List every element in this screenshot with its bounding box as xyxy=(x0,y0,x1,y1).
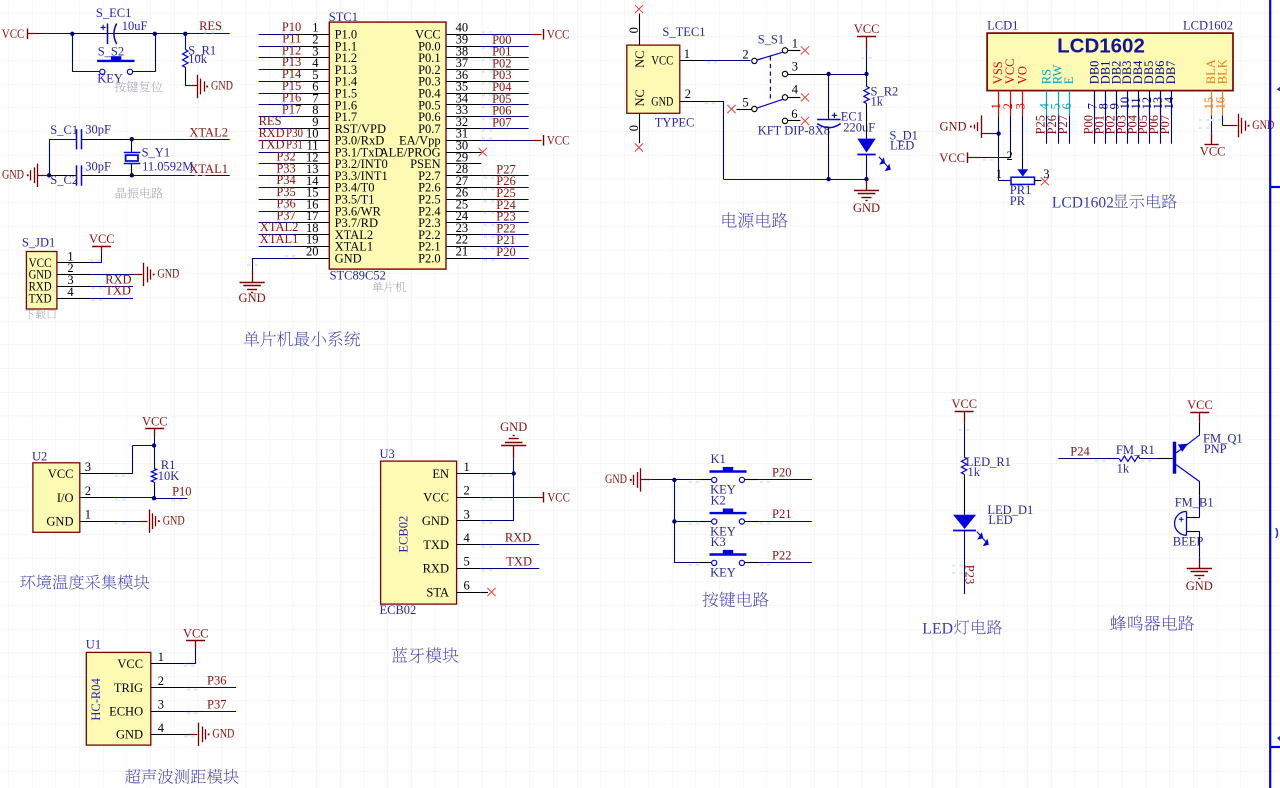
pin 29 (PSEN) xyxy=(410,150,481,171)
wire P32 xyxy=(259,163,294,165)
label STC1 designator xyxy=(329,10,358,24)
wire P01 xyxy=(481,57,528,59)
svg-text:P20: P20 xyxy=(772,466,791,480)
wire K3 to P22 xyxy=(745,563,812,567)
svg-text:RES: RES xyxy=(199,19,222,33)
label S_R1 designator xyxy=(188,44,216,58)
svg-text:S_C1: S_C1 xyxy=(50,123,78,137)
svg-text:6: 6 xyxy=(464,578,470,592)
label KEY (K2) xyxy=(710,524,736,538)
svg-text:HC-R04: HC-R04 xyxy=(89,677,103,720)
pin 34 (P0.5) xyxy=(418,91,481,112)
svg-text:BLK: BLK xyxy=(1215,59,1229,84)
label PR part xyxy=(1010,194,1026,208)
svg-text:RXD: RXD xyxy=(423,562,449,576)
pin 26 (P2.5) xyxy=(418,186,481,207)
no connect bottom (S_TEC1) xyxy=(635,113,643,151)
label download port title xyxy=(24,309,55,319)
pin 7 (DB0) LCD1602 xyxy=(1086,61,1102,116)
svg-text:0: 0 xyxy=(627,27,641,33)
pin 5 (RW) LCD1602 xyxy=(1049,65,1065,116)
svg-text:VCC: VCC xyxy=(423,491,449,505)
svg-text:LCD1602: LCD1602 xyxy=(1052,194,1114,211)
pin 1 (GND U2) xyxy=(46,508,114,529)
wire XTAL1 (pin19) xyxy=(259,246,294,248)
pin 8 (P1.7) xyxy=(294,103,357,124)
net label TXD xyxy=(105,284,131,298)
svg-text:P37: P37 xyxy=(207,697,226,711)
svg-text:GND: GND xyxy=(46,515,73,529)
label S_S2 designator xyxy=(98,44,124,58)
potentiometer PR1 xyxy=(1011,169,1035,184)
pin 10 (DB3) LCD1602 xyxy=(1118,61,1134,116)
net label P03 (LCD) xyxy=(1114,115,1128,134)
svg-text:GND: GND xyxy=(239,291,266,305)
svg-text:LED: LED xyxy=(988,513,1012,527)
node junction XTAL1 xyxy=(130,173,134,177)
pin VCC (S_TEC1) xyxy=(651,54,673,68)
net label P34 xyxy=(276,173,296,187)
pin 4 (GND U1) xyxy=(116,721,186,742)
svg-text:GND: GND xyxy=(212,727,234,741)
pin 13 (P3.3/INT1) xyxy=(294,162,388,183)
svg-text:ECHO: ECHO xyxy=(109,705,143,719)
net label TXD (U3) xyxy=(506,554,532,568)
svg-text:P27: P27 xyxy=(1056,115,1070,134)
wire P34 xyxy=(259,187,294,189)
svg-text:S_S1: S_S1 xyxy=(758,33,784,47)
net label RES xyxy=(199,19,222,33)
svg-text:1k: 1k xyxy=(1117,462,1130,476)
capacitor EC1 xyxy=(817,113,840,128)
connector S_TEC1 body xyxy=(627,45,680,113)
wire VO down to PR1 wiper xyxy=(1022,116,1024,170)
svg-text:DB7: DB7 xyxy=(1164,61,1178,85)
label LED (LED_D1) xyxy=(988,513,1012,527)
wire VCC to LED_R1 xyxy=(959,423,970,457)
wire corner to S_C1 xyxy=(49,139,76,141)
label KFT DIP-8X8 xyxy=(758,124,830,138)
svg-text:VO: VO xyxy=(1015,66,1029,84)
label PR1 designator xyxy=(1010,183,1032,197)
net label P27 xyxy=(484,162,516,178)
svg-text:VCC: VCC xyxy=(951,397,977,411)
wire P23 xyxy=(481,222,528,224)
wire P37 xyxy=(186,712,236,715)
pin 3 (VCC U2) xyxy=(48,460,114,481)
wire P25 xyxy=(481,199,528,201)
ic U3 ECB02 body xyxy=(381,461,457,604)
svg-text:2: 2 xyxy=(742,47,748,61)
svg-text:P07: P07 xyxy=(492,115,511,129)
wire pin4 to GND (U1) xyxy=(184,735,197,738)
net label P22 xyxy=(484,221,516,237)
label 30pF value (C1) xyxy=(85,122,111,136)
label buzzer circuit title xyxy=(1110,615,1194,631)
net label P00 xyxy=(482,33,512,49)
wire pin20 to GND xyxy=(247,255,295,282)
label NC (top pin) xyxy=(633,51,647,68)
svg-text:VCC: VCC xyxy=(547,134,570,148)
wire P16 xyxy=(259,104,294,106)
pin 18 (XTAL2) xyxy=(294,221,373,242)
switch S_S1 linkage xyxy=(769,56,771,101)
pin 4 (S_JD1) xyxy=(57,285,91,299)
svg-text:2: 2 xyxy=(158,674,164,688)
svg-text:30pF: 30pF xyxy=(85,160,111,174)
wire P17 xyxy=(259,116,294,118)
wire P26 xyxy=(481,187,528,189)
ground GND (U2) xyxy=(150,510,185,533)
svg-text:1: 1 xyxy=(464,460,470,474)
svg-text:S_S2: S_S2 xyxy=(98,44,124,58)
switch S_S1 pole A xyxy=(752,48,788,64)
pin 27 (P2.6) xyxy=(418,174,481,195)
pin 15 (P3.5/T1) xyxy=(294,186,375,207)
ground GND (U1) xyxy=(199,723,235,746)
power port VCC (rail) xyxy=(854,22,880,36)
svg-text:2: 2 xyxy=(464,484,470,498)
wire pin40 to VCC xyxy=(481,31,541,34)
svg-text:GND: GND xyxy=(211,79,233,93)
pin 1 (VSS) LCD1602 xyxy=(989,61,1005,115)
wire P00 (LCD) xyxy=(1094,116,1096,144)
svg-text:GND: GND xyxy=(1186,579,1213,593)
wire P10 xyxy=(259,34,294,36)
svg-text:S_C2: S_C2 xyxy=(50,173,78,187)
label ultrasonic module title xyxy=(125,769,239,784)
pin 33 (P0.6) xyxy=(418,103,481,124)
ic U1 STC89C52 body xyxy=(329,22,446,269)
pin 11 (DB4) LCD1602 xyxy=(1129,60,1145,116)
pin 2 (TRIG U1) xyxy=(114,674,186,695)
node junction R1 top xyxy=(152,443,156,447)
net label P06 xyxy=(482,104,512,120)
ground GND (reset) xyxy=(198,75,234,98)
net label P17 xyxy=(282,102,302,116)
svg-text:BEEP: BEEP xyxy=(1173,534,1204,548)
pin 5 (P1.4) xyxy=(294,68,358,89)
sheet border tick 1 xyxy=(1270,186,1280,188)
svg-text:VCC: VCC xyxy=(1187,398,1213,412)
svg-text:RXD: RXD xyxy=(505,531,531,545)
svg-text:P2.0: P2.0 xyxy=(418,251,441,265)
svg-text:VCC: VCC xyxy=(547,28,570,42)
pin 13 (DB6) LCD1602 xyxy=(1151,61,1167,116)
svg-text:FM_R1: FM_R1 xyxy=(1116,443,1155,457)
svg-text:LED: LED xyxy=(922,620,953,637)
net label P26 (LCD) xyxy=(1045,115,1059,134)
label S_R2 designator xyxy=(871,84,899,98)
svg-text:11.0592M: 11.0592M xyxy=(142,159,193,173)
svg-text:10uF: 10uF xyxy=(122,19,148,33)
net label P12 xyxy=(282,43,302,57)
wire P33 xyxy=(259,175,294,177)
label 1k value (LED_R1) xyxy=(968,465,981,479)
svg-text:ECB02: ECB02 xyxy=(397,516,411,553)
wire FM_R1 to base xyxy=(1140,459,1173,462)
wire P22 xyxy=(481,234,528,236)
wire P15 xyxy=(259,93,294,95)
power port VCC (U1) xyxy=(183,626,209,648)
pin 28 (P2.7) xyxy=(418,162,481,183)
label STC89C52 part number xyxy=(330,269,386,283)
svg-text:ECB02: ECB02 xyxy=(380,603,417,617)
svg-text:GND: GND xyxy=(500,420,527,434)
svg-text:16: 16 xyxy=(1213,97,1227,110)
svg-text:3: 3 xyxy=(158,698,164,712)
wire P13 xyxy=(259,69,294,71)
net label P37 xyxy=(207,697,226,711)
svg-text:VCC: VCC xyxy=(142,414,168,428)
pin 9 (RST/VPD) xyxy=(294,115,386,136)
node junction EN-GND xyxy=(512,471,516,475)
node junction S_EC1 right xyxy=(153,32,157,36)
node junction EC1 top xyxy=(826,72,830,76)
pin 3 (P1.2) xyxy=(294,44,357,65)
wire LED_D1 to P23 xyxy=(952,531,964,595)
svg-text:STC89C52: STC89C52 xyxy=(330,269,386,283)
net label P37 xyxy=(276,208,295,222)
power port VCC (S_JD1) xyxy=(92,246,111,248)
wire P02 xyxy=(481,69,528,71)
switch K3 (KEY) xyxy=(710,550,747,566)
svg-text:2: 2 xyxy=(1006,149,1012,163)
diode LED_D1 xyxy=(953,515,988,546)
label 11.0592M value xyxy=(142,159,193,173)
svg-text:220uF: 220uF xyxy=(843,121,875,135)
net label P21 xyxy=(772,507,791,521)
svg-text:VCC: VCC xyxy=(1200,144,1226,158)
wire P36 xyxy=(186,688,236,691)
switch K2 (KEY) xyxy=(710,509,747,525)
pin 19 (XTAL1) xyxy=(294,233,373,254)
label K1 designator xyxy=(711,452,726,466)
no connect top (S_TEC1) xyxy=(635,5,643,45)
svg-text:VCC: VCC xyxy=(183,626,209,640)
wire XTAL1 xyxy=(132,175,230,177)
switch S_S2 (KEY) xyxy=(97,56,134,74)
label PNP type xyxy=(1204,442,1227,456)
net label P33 xyxy=(276,161,295,175)
svg-text:P10: P10 xyxy=(172,484,191,498)
label EC1 designator xyxy=(841,109,863,123)
svg-text:GND: GND xyxy=(651,94,673,108)
pin 1 (S_JD1) xyxy=(57,249,91,263)
pin 2 (I/O U2) xyxy=(57,484,114,505)
pin 4 (S_S1) xyxy=(788,83,809,102)
label temperature module title xyxy=(20,574,149,589)
wire P27 (LCD) xyxy=(1069,116,1071,144)
pin 12 (DB5) LCD1602 xyxy=(1140,61,1156,116)
svg-text:VCC: VCC xyxy=(547,490,570,504)
svg-text:1k: 1k xyxy=(968,465,981,479)
sheet zone mark A xyxy=(1277,87,1280,92)
label FM_Q1 designator xyxy=(1203,432,1243,446)
label VCC (S_JD1) xyxy=(89,232,115,246)
pin 21 (P2.0) xyxy=(418,245,481,266)
wire pin1 to VCC (U1) xyxy=(184,648,196,667)
wire P14 xyxy=(259,81,294,83)
pin 3 (S_JD1) xyxy=(57,273,91,287)
pin 4 (RS) LCD1602 xyxy=(1037,69,1053,116)
label 1k value (FM_R1) xyxy=(1117,462,1130,476)
label LCD1 designator xyxy=(987,19,1018,33)
net label P05 xyxy=(482,92,512,108)
wire P04 xyxy=(481,93,528,95)
svg-text:4: 4 xyxy=(792,83,799,97)
label R1 designator xyxy=(161,458,176,472)
ic LCD1602 body xyxy=(987,33,1233,91)
svg-text:P36: P36 xyxy=(207,674,226,688)
sheet zone mark B xyxy=(1276,528,1278,538)
net label RXD xyxy=(105,272,131,286)
pin 5 (RXD U3) xyxy=(423,555,481,576)
label minimum system title xyxy=(244,331,361,346)
wire to K3 xyxy=(674,563,711,567)
label keys circuit title xyxy=(703,592,769,607)
svg-text:S_TEC1: S_TEC1 xyxy=(662,25,705,39)
node junction S_EC1 left xyxy=(70,32,74,36)
svg-text:P21: P21 xyxy=(772,507,791,521)
svg-text:GND: GND xyxy=(605,472,627,486)
label S_C2 designator xyxy=(50,173,78,187)
pin 1 (P1.0) xyxy=(294,21,357,42)
pin 23 (P2.2) xyxy=(418,221,481,242)
switch S_S1 pole B xyxy=(752,95,788,112)
svg-text:GND: GND xyxy=(2,168,24,182)
net label XTAL2 xyxy=(189,125,228,139)
svg-text:TYPEC: TYPEC xyxy=(655,116,695,130)
label U2 designator xyxy=(32,450,47,464)
svg-text:XTAL1: XTAL1 xyxy=(260,232,299,246)
node junction crystal left xyxy=(47,173,51,177)
svg-text:1: 1 xyxy=(684,47,690,61)
label LCD1602 title text xyxy=(1057,35,1145,58)
pin 3 (VO) LCD1602 xyxy=(1013,66,1029,115)
resistor FM_R1 xyxy=(1119,456,1140,461)
wire S_EC1 left to switch xyxy=(72,34,99,72)
wire RXD (U3) xyxy=(480,545,539,548)
wire TXD (U3) xyxy=(480,569,539,572)
wire buzzer to GND xyxy=(1199,531,1201,568)
label 220uF value xyxy=(843,121,875,135)
pin 37 (P0.2) xyxy=(418,56,481,77)
label S_JD1 designator xyxy=(22,236,55,250)
net label P22 xyxy=(772,549,791,563)
label LCD display title xyxy=(1113,194,1176,209)
capacitor EC1 wires xyxy=(828,74,830,179)
wire P36 xyxy=(259,211,294,213)
svg-text:VCC: VCC xyxy=(2,27,25,41)
ground GND (S_JD1) xyxy=(144,263,180,286)
pin 3 (S_S1) xyxy=(782,60,828,77)
wire P02 (LCD) xyxy=(1116,116,1118,144)
wire P10 xyxy=(154,498,187,500)
wire P04 (LCD) xyxy=(1138,116,1140,144)
wire P24 xyxy=(481,211,528,213)
ic U1 HC-R04 body xyxy=(86,652,151,745)
svg-text:GND: GND xyxy=(335,251,362,265)
svg-text:VCC: VCC xyxy=(939,151,965,165)
svg-text:1: 1 xyxy=(996,167,1002,181)
svg-text:K1: K1 xyxy=(711,452,726,466)
wire K2 to P21 xyxy=(745,522,812,525)
net label RXD P30 xyxy=(259,126,303,140)
wire S_R1 to GND xyxy=(185,85,197,87)
pin 3 (GND U3) xyxy=(422,507,480,528)
svg-text:21: 21 xyxy=(456,245,469,259)
wire pin1 to GND xyxy=(114,522,147,525)
svg-text:2: 2 xyxy=(685,87,691,101)
svg-text:S_EC1: S_EC1 xyxy=(96,6,131,20)
net label P25 (LCD) xyxy=(1034,115,1048,134)
power port VCC (LED) xyxy=(951,397,977,423)
svg-text:TXD: TXD xyxy=(423,538,449,552)
svg-text:PR: PR xyxy=(1010,194,1026,208)
label KEY (K1) xyxy=(710,483,736,497)
net label P26 xyxy=(484,174,516,190)
pin GND (S_TEC1) xyxy=(651,94,673,108)
net label XTAL1 (pin19) xyxy=(260,232,299,246)
wire pin31 to VCC xyxy=(481,137,541,140)
label MCU title xyxy=(372,282,406,292)
label U3 designator xyxy=(380,447,395,461)
pin 6 (STA U3) xyxy=(426,578,480,599)
connector S_JD1 xyxy=(26,252,57,310)
net label RXD (U3) xyxy=(505,531,531,545)
pin 6 (P1.5) xyxy=(294,80,357,101)
svg-text:NC: NC xyxy=(633,89,647,106)
node junction keys K1 xyxy=(672,478,676,482)
capacitor S_C1 xyxy=(77,129,132,149)
pin 2 label (S_S1) xyxy=(742,47,748,61)
pin 5 (S_S1) xyxy=(727,95,751,113)
net label P14 xyxy=(282,67,302,81)
net label P35 xyxy=(276,185,295,199)
net label P23 xyxy=(963,565,977,584)
label 1k value (S_R2) xyxy=(871,95,884,109)
label 30pF value (C2) xyxy=(85,160,111,174)
wire VSS to PR1 pin1 xyxy=(999,134,1012,181)
pin 16 (P3.6/WR) xyxy=(294,197,381,218)
svg-text:4: 4 xyxy=(464,531,471,545)
svg-text:3: 3 xyxy=(792,60,798,74)
pin 1 label (PR1) xyxy=(996,167,1002,181)
label KEY (K3) xyxy=(710,566,736,580)
pin 14 (P3.4/T0) xyxy=(294,174,375,195)
svg-text:FM_B1: FM_B1 xyxy=(1175,496,1214,510)
label S_S1 designator xyxy=(758,33,784,47)
pin 16 (BLK) LCD1602 xyxy=(1213,59,1229,115)
power port VCC (backlight) xyxy=(1200,144,1226,158)
svg-text:TXD: TXD xyxy=(105,284,131,298)
svg-text:1k: 1k xyxy=(871,95,884,109)
wire P27 xyxy=(481,175,528,177)
wire VCC down xyxy=(1010,116,1012,158)
net label P04 (LCD) xyxy=(1125,114,1139,134)
wire P07 (LCD) xyxy=(1171,116,1173,144)
svg-text:P22: P22 xyxy=(772,549,791,563)
node junction VCC rail xyxy=(864,72,868,76)
transistor FM_Q1 PNP xyxy=(1175,423,1200,482)
label LCD display title latin xyxy=(1052,194,1114,211)
svg-text:KEY: KEY xyxy=(97,72,123,86)
power port VCC (pin31) xyxy=(544,134,570,148)
wire RES (pin9) xyxy=(259,128,294,130)
net label TXD P31 xyxy=(259,138,303,152)
label NC pin 0 bottom xyxy=(627,125,641,131)
